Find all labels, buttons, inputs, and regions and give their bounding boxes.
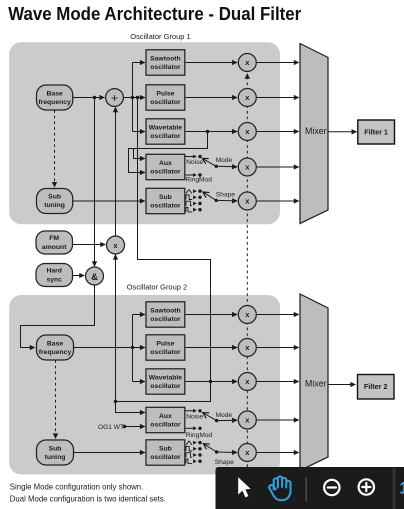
svg-text:oscillator: oscillator	[150, 99, 181, 106]
svg-text:Oscillator Group 1: Oscillator Group 1	[130, 32, 190, 41]
svg-text:OG1 WT: OG1 WT	[98, 424, 124, 431]
svg-text:Aux: Aux	[159, 160, 172, 167]
svg-text:RingMod: RingMod	[186, 177, 213, 184]
svg-text:Base: Base	[47, 340, 63, 347]
svg-text:FM: FM	[49, 235, 59, 242]
svg-text:Aux: Aux	[159, 413, 172, 420]
svg-text:frequency: frequency	[39, 349, 72, 356]
svg-text:Single Mode configuration only: Single Mode configuration only shown.	[10, 482, 144, 491]
svg-text:Wavetable: Wavetable	[149, 374, 183, 381]
svg-text:&: &	[91, 272, 98, 283]
svg-text:Filter 2: Filter 2	[364, 382, 388, 391]
svg-text:amount: amount	[42, 244, 67, 251]
svg-text:Noise: Noise	[186, 159, 203, 166]
svg-text:Dual Mode configuration is two: Dual Mode configuration is two identical…	[10, 494, 166, 503]
svg-text:Shape: Shape	[216, 192, 235, 199]
svg-text:Mode: Mode	[216, 157, 233, 164]
svg-text:oscillator: oscillator	[150, 64, 181, 71]
svg-text:Wavetable: Wavetable	[149, 124, 183, 131]
svg-text:Sub: Sub	[159, 194, 172, 201]
svg-text:Hard: Hard	[46, 268, 62, 275]
svg-text:Mixer: Mixer	[305, 379, 327, 389]
svg-text:1: 1	[399, 480, 404, 498]
svg-text:Mode: Mode	[216, 412, 233, 419]
svg-text:Sawtooth: Sawtooth	[150, 55, 181, 62]
svg-text:oscillator: oscillator	[150, 169, 181, 176]
svg-text:oscillator: oscillator	[150, 316, 181, 323]
svg-text:tuning: tuning	[45, 454, 66, 461]
svg-text:Sawtooth: Sawtooth	[150, 307, 181, 314]
svg-text:Oscillator Group 2: Oscillator Group 2	[127, 283, 187, 292]
svg-text:frequency: frequency	[38, 99, 71, 106]
svg-text:oscillator: oscillator	[150, 383, 181, 390]
svg-text:oscillator: oscillator	[150, 133, 181, 140]
svg-text:oscillator: oscillator	[150, 454, 181, 461]
svg-text:oscillator: oscillator	[150, 422, 181, 429]
svg-text:Sub: Sub	[48, 193, 61, 200]
svg-text:Pulse: Pulse	[156, 90, 174, 97]
svg-text:+: +	[111, 91, 118, 105]
svg-text:oscillator: oscillator	[150, 349, 181, 356]
svg-text:Mixer: Mixer	[305, 126, 327, 136]
svg-text:Sub: Sub	[49, 445, 62, 452]
svg-text:oscillator: oscillator	[150, 203, 181, 210]
svg-text:RingMod: RingMod	[186, 432, 213, 439]
svg-text:Wave Mode Architecture - Dual: Wave Mode Architecture - Dual Filter	[8, 3, 301, 24]
svg-text:Filter 1: Filter 1	[364, 127, 388, 136]
svg-text:Pulse: Pulse	[156, 340, 174, 347]
svg-text:Shape: Shape	[215, 459, 234, 466]
svg-text:tuning: tuning	[44, 202, 65, 209]
svg-text:Noise: Noise	[186, 414, 203, 421]
svg-text:Base: Base	[46, 90, 62, 97]
svg-text:sync: sync	[46, 276, 62, 283]
svg-text:Sub: Sub	[159, 445, 172, 452]
